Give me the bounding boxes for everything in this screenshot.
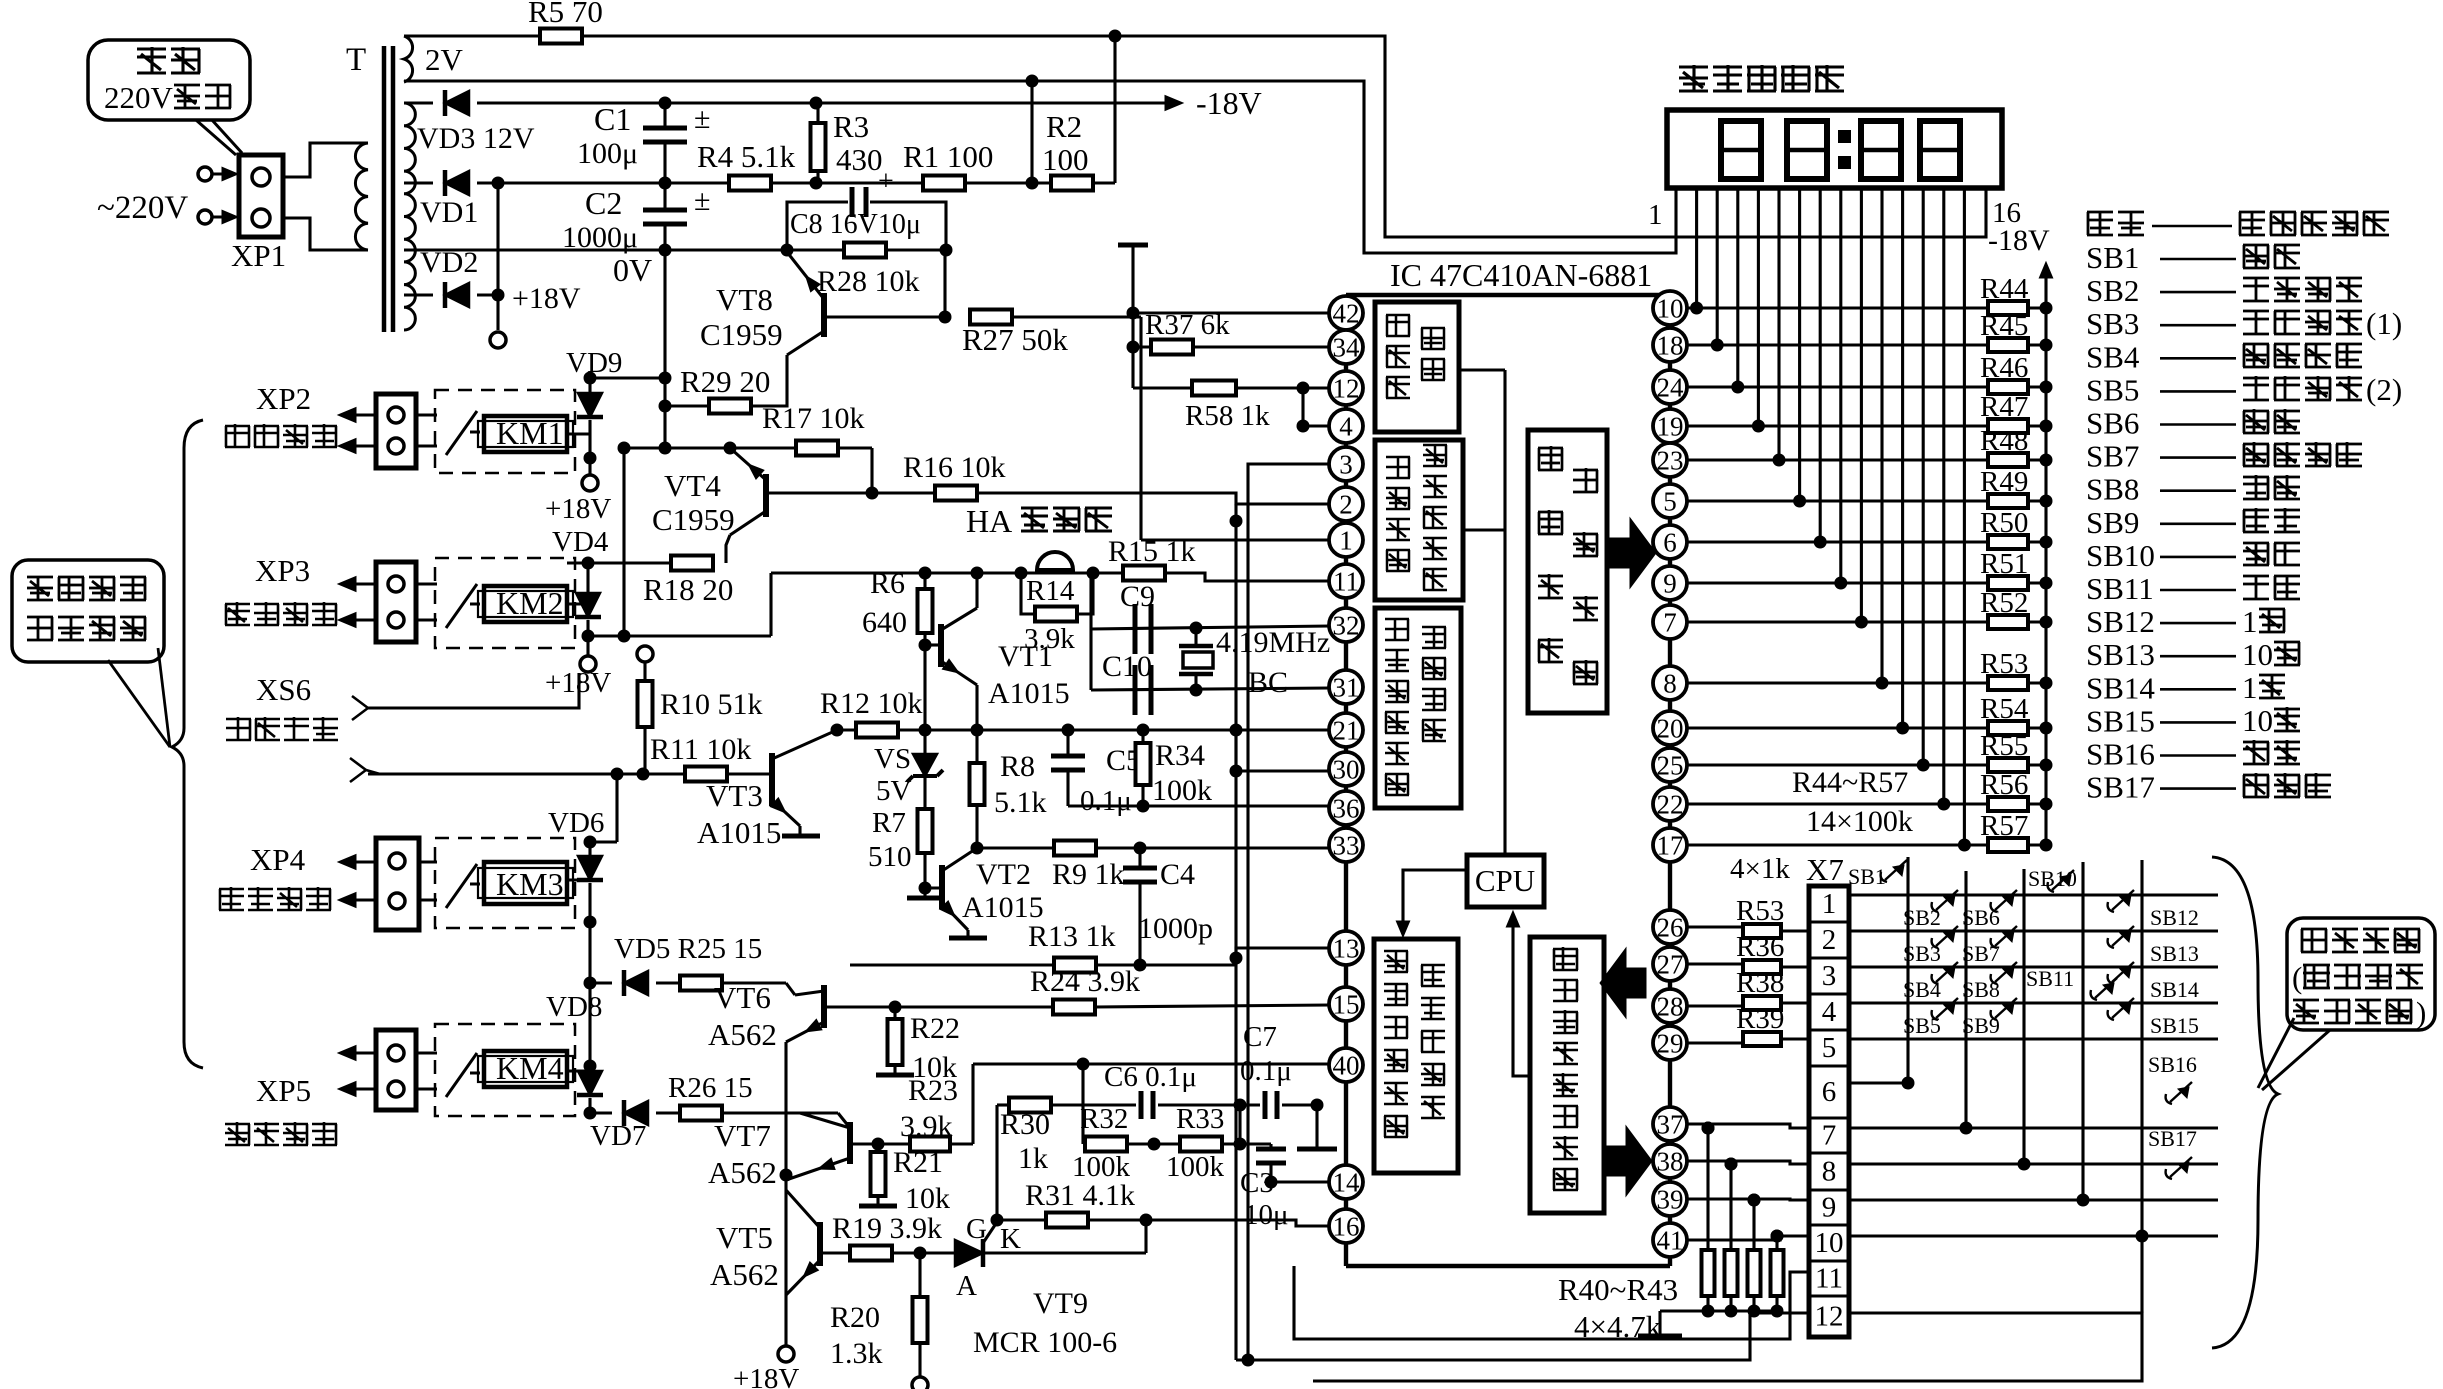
svg-text:SB8: SB8 (2086, 472, 2139, 507)
relay coil KM3 (484, 862, 567, 904)
callout bubble matrix circuit 矩阵电路 (2287, 918, 2435, 1030)
ground matrix resistors (1658, 1311, 1661, 1336)
svg-text:SB14: SB14 (2150, 977, 2199, 1002)
svg-text:VD3 12V: VD3 12V (417, 122, 535, 155)
resistor R54 row (1686, 726, 1988, 729)
svg-text:VD7: VD7 (590, 1120, 646, 1152)
wire 0V bus down (663, 250, 666, 448)
svg-text:SB9: SB9 (2086, 505, 2139, 540)
wire XP1 to primary (283, 143, 368, 177)
resistor R56 row (1686, 802, 1988, 805)
svg-text:VT7: VT7 (714, 1118, 771, 1153)
resistor R29 20 (750, 355, 787, 406)
resistor R5 70 (404, 34, 540, 37)
svg-text:5: 5 (1822, 1032, 1837, 1064)
svg-text:SB1: SB1 (2086, 240, 2139, 275)
dashed relay box KM3 (435, 838, 575, 928)
svg-text:32: 32 (1333, 611, 1360, 641)
svg-text:430: 430 (836, 142, 883, 177)
svg-text:100μ: 100μ (577, 137, 638, 170)
svg-text:1: 1 (1648, 199, 1663, 231)
svg-text:R20: R20 (830, 1301, 880, 1334)
resistor R55 row (1686, 763, 1988, 766)
wire pin41 to row10 (1686, 1236, 1809, 1240)
svg-text:-18V: -18V (1196, 85, 1262, 121)
svg-text:BC: BC (1248, 666, 1288, 699)
wire pin36 line (1068, 804, 1330, 807)
svg-text:R29 20: R29 20 (680, 364, 770, 399)
svg-text:3: 3 (1822, 960, 1837, 992)
resistor R13 1k (1054, 958, 1096, 973)
wire pin3 long drop (1248, 464, 1330, 1360)
svg-text:36: 36 (1333, 794, 1360, 824)
wire pin12 pin4 link (1301, 388, 1304, 426)
pin 32 (1329, 608, 1363, 642)
resistor R4 5.1k (729, 176, 771, 191)
transistor VT6 A562 (821, 985, 827, 1028)
svg-text:4.19MHz: 4.19MHz (1216, 626, 1330, 659)
relay coil KM1 (484, 416, 567, 452)
svg-text:SB8: SB8 (1962, 977, 2000, 1002)
dashed relay box KM2 (435, 558, 575, 648)
svg-text:R14: R14 (1026, 575, 1075, 607)
wire top rail to display pin16 (582, 36, 1986, 237)
svg-text:R32: R32 (1080, 1103, 1128, 1135)
pin 31 (1329, 670, 1363, 704)
wire XS6 bottom to R11 (368, 772, 617, 775)
wire pin4 (1303, 424, 1330, 427)
pin 16 (1329, 1209, 1363, 1243)
svg-text:(2): (2) (2366, 372, 2402, 407)
svg-text:VS: VS (874, 743, 911, 775)
svg-text:R5 70: R5 70 (528, 0, 603, 29)
svg-text:C6 0.1μ: C6 0.1μ (1104, 1061, 1197, 1093)
resistor R7 510 (923, 776, 926, 809)
svg-text:KM3: KM3 (496, 866, 564, 902)
pin 10 (1653, 291, 1687, 325)
wire +18V rectifier rail (477, 181, 729, 184)
svg-text:KM1: KM1 (496, 415, 564, 451)
svg-text:R30: R30 (1000, 1108, 1050, 1141)
svg-text:R31 4.1k: R31 4.1k (1025, 1179, 1135, 1212)
svg-text:4: 4 (1339, 412, 1353, 442)
svg-text:1: 1 (2242, 670, 2258, 705)
capacitor C5 0.1u (1066, 730, 1069, 756)
svg-text:640: 640 (862, 606, 907, 639)
box microwave grill control 微波和烧烤控制接口电路 (1374, 939, 1458, 1173)
svg-text:29: 29 (1657, 1029, 1684, 1059)
resistor R27 50k (970, 310, 1012, 325)
svg-text:11: 11 (1815, 1263, 1843, 1295)
relay switch KM1 (446, 411, 477, 455)
svg-text:SB2: SB2 (1903, 905, 1941, 930)
svg-text:VD4: VD4 (552, 526, 609, 558)
wire drop to R32 (1081, 1064, 1084, 1144)
resistor R40 (1706, 1128, 1709, 1250)
svg-text:R18 20: R18 20 (643, 572, 733, 607)
resistor R30 1k (997, 1103, 1009, 1106)
svg-text:R52: R52 (1980, 587, 2028, 619)
svg-text:R7: R7 (872, 807, 906, 839)
svg-text:R1 100: R1 100 (903, 139, 993, 174)
diode VD2 (404, 293, 433, 296)
wire pin37 to row7 (1686, 1124, 1809, 1128)
svg-text:R9 1k: R9 1k (1052, 858, 1125, 891)
pin 5 (1653, 484, 1687, 518)
resistor R51 row (1686, 581, 1988, 584)
capacitor C1 100u (663, 103, 666, 128)
IC bottom line (1346, 1264, 1670, 1269)
svg-text:3: 3 (1339, 450, 1353, 480)
svg-text:SB4: SB4 (1903, 977, 1941, 1002)
connector XP4 (338, 854, 356, 869)
connector XP5 (338, 1045, 356, 1060)
svg-text:1k: 1k (1018, 1142, 1048, 1175)
pin 11 (1329, 564, 1363, 598)
box manual command input 人工指令输入电路 (1530, 937, 1604, 1213)
svg-text:1.3k: 1.3k (830, 1337, 883, 1370)
resistor R34 100k (1141, 730, 1144, 742)
svg-text:MCR 100-6: MCR 100-6 (973, 1326, 1117, 1359)
resistor R50 row (1686, 540, 1988, 543)
resistor R43 (1775, 1236, 1778, 1250)
svg-text:R37 6k: R37 6k (1145, 309, 1230, 341)
pin 3 (1329, 447, 1363, 481)
matrix row 6 wire (1849, 1081, 1908, 1084)
pin 4 (1329, 409, 1363, 443)
wire buzzer rail (771, 571, 1123, 574)
ground C7 (1315, 1105, 1318, 1149)
svg-text:A562: A562 (708, 1017, 777, 1052)
svg-text:R48: R48 (1980, 425, 2028, 457)
svg-text:10: 10 (1815, 1227, 1844, 1259)
svg-text:SB6: SB6 (1962, 905, 2000, 930)
svg-text:SB13: SB13 (2150, 941, 2199, 966)
wire C9 down (1089, 573, 1092, 690)
svg-text:R57: R57 (1980, 810, 2028, 842)
svg-text:VT1: VT1 (998, 640, 1053, 673)
svg-text:R51: R51 (1980, 548, 2028, 580)
wire pin21 line (837, 728, 1330, 731)
big arrow display driver to pins (1608, 518, 1656, 588)
box relay driver 继电器驱动接口电路 (1375, 440, 1463, 600)
relay switch KM3 (446, 864, 477, 908)
svg-text:C1: C1 (594, 101, 631, 137)
svg-text:VT3: VT3 (706, 778, 763, 813)
svg-text:5.1k: 5.1k (994, 786, 1047, 819)
resistor R47 row (1686, 424, 1988, 427)
svg-text:100: 100 (1042, 142, 1089, 177)
svg-text:VT5: VT5 (716, 1220, 773, 1255)
svg-text:A: A (956, 1270, 977, 1302)
resistor R33 100k (1180, 1137, 1222, 1152)
svg-text:17: 17 (1657, 831, 1684, 861)
dashed relay box KM4 (435, 1024, 575, 1116)
switch SB13 (2108, 938, 2114, 948)
wire pin33 line (977, 846, 1330, 849)
svg-text:10μ: 10μ (1244, 1199, 1289, 1231)
matrix row 7-10 wires (1849, 1126, 2218, 1129)
svg-text:): ) (2416, 995, 2426, 1030)
svg-text:31: 31 (1333, 673, 1360, 703)
thyristor VT9 MCR100-6 (955, 1240, 983, 1266)
svg-text:SB4: SB4 (2086, 339, 2140, 374)
callout bubble AC 220V input (88, 40, 250, 120)
wire pin31 line (1091, 688, 1330, 690)
svg-text:12: 12 (1333, 374, 1360, 404)
pin 39 (1653, 1182, 1687, 1216)
svg-text:±: ± (694, 102, 710, 135)
svg-text:R2: R2 (1046, 109, 1082, 144)
pin 20 (1653, 711, 1687, 745)
-18V rail right (2044, 268, 2047, 845)
CPU box (1467, 855, 1544, 907)
svg-text:R17 10k: R17 10k (762, 402, 865, 435)
resistor R36 (1686, 962, 1743, 965)
svg-text:1: 1 (1339, 526, 1353, 556)
wire CPU up arrow from input box (1513, 916, 1530, 1076)
resistor R11 10k (617, 772, 685, 775)
wire pin32 stub (1089, 627, 1092, 630)
svg-text:26: 26 (1657, 913, 1684, 943)
svg-text:510: 510 (868, 841, 912, 873)
svg-text:37: 37 (1657, 1110, 1684, 1140)
svg-text:R33: R33 (1176, 1103, 1224, 1135)
resistor R57 row (1686, 843, 1988, 846)
switch SB14 (2108, 974, 2114, 984)
svg-text:R58 1k: R58 1k (1185, 400, 1270, 432)
svg-text:R36: R36 (1736, 931, 1784, 963)
wire CPU to boxes (1458, 368, 1505, 371)
svg-text:A1015: A1015 (697, 815, 781, 850)
wire +18V node (496, 183, 499, 330)
svg-text:33: 33 (1333, 831, 1360, 861)
svg-text:SB5: SB5 (1903, 1013, 1941, 1038)
svg-text:21: 21 (1333, 716, 1360, 746)
svg-text:R4 5.1k: R4 5.1k (697, 139, 796, 174)
resistor R37 6k (1133, 345, 1152, 348)
seven segment digits (1721, 121, 1761, 179)
svg-text:R26 15: R26 15 (668, 1072, 753, 1104)
svg-text:(1): (1) (2366, 306, 2402, 341)
diode VD3 (404, 101, 433, 104)
svg-text:8: 8 (1822, 1156, 1837, 1188)
svg-text:X7: X7 (1806, 852, 1844, 887)
capacitor C10 (1133, 665, 1138, 715)
pin 2 (1329, 487, 1363, 521)
transformer T secondary winding 2V (404, 36, 413, 82)
svg-text:C8 16V10μ: C8 16V10μ (790, 209, 921, 240)
resistor R45 row (1686, 343, 1988, 346)
svg-text:13: 13 (1333, 934, 1360, 964)
svg-text:34: 34 (1333, 333, 1361, 363)
transformer T primary winding (355, 143, 368, 250)
bottom bus wires (1294, 1266, 1809, 1339)
crystal BC 4.19MHz (1194, 628, 1197, 646)
pin 1 (1329, 523, 1363, 557)
svg-text:SB7: SB7 (1962, 941, 2000, 966)
svg-text:22: 22 (1657, 790, 1684, 820)
svg-text:28: 28 (1657, 992, 1684, 1022)
svg-text:1: 1 (2242, 604, 2258, 639)
resistor R58 1k (1133, 386, 1194, 389)
svg-text:C10: C10 (1102, 650, 1152, 683)
svg-text:R54: R54 (1980, 693, 2029, 725)
svg-text:±: ± (694, 184, 710, 217)
pin 22 (1653, 787, 1687, 821)
pin 33 (1329, 828, 1363, 862)
resistor R52 row (1686, 620, 1988, 623)
display box (1667, 110, 2002, 188)
svg-text:42: 42 (1333, 299, 1360, 329)
pin 19 (1653, 409, 1687, 443)
resistor R49 row (1686, 499, 1988, 502)
svg-text:SB17: SB17 (2086, 770, 2155, 805)
svg-text:XP3: XP3 (255, 553, 310, 588)
svg-text:SB2: SB2 (2086, 273, 2139, 308)
wire R30 left vertical (995, 1105, 998, 1220)
svg-text:+18V: +18V (733, 1363, 799, 1389)
svg-text:15: 15 (1333, 990, 1360, 1020)
svg-text:CPU: CPU (1475, 863, 1535, 898)
svg-text:XP5: XP5 (256, 1073, 311, 1108)
resistor R48 row (1686, 458, 1988, 461)
svg-text:38: 38 (1657, 1147, 1684, 1177)
pin 38 (1653, 1144, 1687, 1178)
capacitor C3 10u (1269, 1144, 1272, 1148)
svg-text:R44: R44 (1980, 273, 2029, 305)
long vertical from pin2 loop (1234, 504, 1237, 1360)
svg-text:R3: R3 (833, 109, 869, 144)
svg-text:2: 2 (1822, 924, 1837, 956)
resistor R28 10k (787, 248, 846, 251)
capacitor C2 1000u (663, 183, 666, 210)
resistor R15 1k (1123, 566, 1165, 581)
svg-text:VT2: VT2 (976, 858, 1031, 891)
relay coil KM2 (484, 586, 567, 622)
svg-text:VT8: VT8 (716, 282, 773, 317)
resistor R32 100k (1083, 1142, 1086, 1145)
svg-text:10: 10 (1657, 294, 1684, 324)
svg-text:SB13: SB13 (2086, 637, 2155, 672)
wire pin16 and R31 line (997, 1220, 1330, 1226)
svg-text:VT6: VT6 (714, 980, 771, 1015)
resistor R2 100 (1051, 176, 1093, 191)
resistor R18 20 (671, 556, 713, 571)
pin 13 (1329, 931, 1363, 965)
wire R27 to pin1 (1139, 317, 1142, 540)
svg-text:SB15: SB15 (2150, 1013, 2199, 1038)
pin 42 (1329, 296, 1363, 330)
svg-text:R23: R23 (908, 1074, 958, 1107)
svg-text:SB3: SB3 (2086, 306, 2139, 341)
pin 36 (1329, 791, 1363, 825)
pin 18 (1653, 328, 1687, 362)
switch SB12 (2108, 902, 2114, 912)
pin 30 (1329, 752, 1363, 786)
svg-text:1000p: 1000p (1138, 912, 1213, 945)
wire R23 up to pin40 line (971, 1064, 974, 1144)
key list header 键号键名对照表 (2087, 211, 2113, 235)
svg-text:-18V: -18V (1988, 224, 2050, 257)
pin 24 (1653, 370, 1687, 404)
relay switch KM4 (446, 1053, 477, 1097)
T-bar node above pin42 (1118, 243, 1148, 248)
pin 25 (1653, 748, 1687, 782)
svg-text:R8: R8 (1000, 750, 1035, 783)
colon dots (1838, 130, 1851, 143)
relay switch KM2 (446, 584, 477, 628)
transistor VT2 A1015 (939, 865, 945, 909)
svg-text:SB10: SB10 (2086, 538, 2155, 573)
svg-text:SB11: SB11 (2026, 966, 2074, 991)
svg-text:40: 40 (1333, 1051, 1360, 1081)
svg-text:R6: R6 (870, 567, 905, 600)
pin 15 (1329, 987, 1363, 1021)
matrix row wires (1849, 893, 2218, 896)
transistor VT7 A562 (847, 1122, 853, 1164)
svg-text:R27 50k: R27 50k (962, 322, 1068, 357)
resistor R31 4.1k (1046, 1213, 1088, 1228)
wire R13 line (850, 963, 1236, 966)
big arrow to pin38 (1604, 1126, 1652, 1196)
svg-text:23: 23 (1657, 446, 1684, 476)
svg-text:IC 47C410AN-6881: IC 47C410AN-6881 (1390, 257, 1652, 293)
svg-text:9: 9 (1822, 1192, 1837, 1224)
pin 41 (1653, 1223, 1687, 1257)
wire 0V rail (404, 248, 787, 251)
wire KM2 node to buzzer rail (588, 634, 771, 637)
svg-text:2V: 2V (425, 42, 464, 77)
svg-text:C1959: C1959 (652, 502, 735, 537)
svg-text:7: 7 (1663, 608, 1677, 638)
svg-text:VD5 R25 15: VD5 R25 15 (614, 933, 762, 965)
emitter bus +18V (784, 1042, 787, 1345)
svg-text:9: 9 (1663, 569, 1677, 599)
svg-text:100k: 100k (1166, 1151, 1225, 1183)
IC left pin chain (1344, 295, 1348, 1266)
ground VT3 (798, 826, 801, 836)
svg-text:SB15: SB15 (2086, 703, 2155, 738)
connector XP3 (338, 576, 356, 591)
svg-text:SB5: SB5 (2086, 372, 2139, 407)
svg-text:30: 30 (1333, 755, 1360, 785)
svg-text:R53: R53 (1980, 648, 2028, 680)
resistor R14 3.9k (1021, 573, 1035, 614)
pin 23 (1653, 443, 1687, 477)
resistor R12 10k (856, 723, 898, 738)
svg-text:7: 7 (1822, 1120, 1837, 1152)
capacitor C7 0.1u (1263, 1091, 1268, 1119)
resistor R22 10k (893, 1007, 896, 1019)
big arrow pins to input box (1600, 948, 1646, 1018)
svg-text:HA: HA (966, 503, 1012, 539)
svg-text:14×100k: 14×100k (1806, 805, 1913, 838)
wire VT4 collector to R18 (726, 535, 730, 563)
svg-text:SB12: SB12 (2086, 604, 2155, 639)
wire pin1 (1141, 538, 1330, 541)
resistor R8 5.1k (975, 730, 978, 762)
resistor R44 row (1686, 306, 1988, 309)
display vertical into matrix c1 (1860, 681, 1863, 684)
svg-text:10: 10 (2242, 637, 2273, 672)
svg-text:+18V: +18V (512, 282, 581, 315)
transformer T secondary main winding (404, 103, 415, 330)
svg-text:VT4: VT4 (664, 468, 721, 503)
svg-text:XS6: XS6 (256, 672, 311, 707)
svg-text:14: 14 (1333, 1168, 1361, 1198)
svg-text:24: 24 (1657, 373, 1685, 403)
